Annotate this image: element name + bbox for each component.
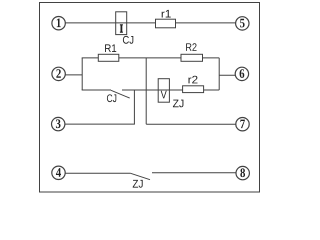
terminal 7 bbox=[236, 118, 249, 131]
resistor r1 bbox=[156, 19, 176, 28]
terminal 3 bbox=[52, 117, 65, 130]
terminal 8 bbox=[236, 166, 249, 179]
wire crossing vertical to terminal 7 bbox=[145, 58, 147, 124]
terminal 6 bbox=[235, 67, 248, 80]
label CJ (contact) bbox=[107, 94, 116, 102]
wire terminal1 to coil I bbox=[65, 22, 155, 24]
wire junction to terminal 7 bbox=[146, 123, 236, 125]
wire mid rail right bbox=[204, 89, 220, 91]
terminal 1 bbox=[52, 17, 65, 30]
resistor R2 bbox=[181, 54, 203, 61]
wire r1 to terminal 5 bbox=[176, 22, 236, 24]
wire terminal 4 to contact ZJ bbox=[65, 172, 130, 174]
coil I (relay CJ current coil) bbox=[116, 12, 127, 35]
coil V (relay ZJ voltage coil) bbox=[158, 79, 169, 103]
wire terminal 3 to junction bbox=[65, 123, 135, 125]
resistor r2 bbox=[183, 86, 204, 93]
wire left rail bbox=[81, 58, 83, 90]
wire right rail to terminal 6 bbox=[219, 74, 235, 76]
terminal 5 bbox=[236, 17, 249, 30]
wire mid rail center bbox=[122, 89, 183, 91]
label R1 bbox=[105, 44, 116, 52]
wire terminal2 to left rail bbox=[65, 74, 82, 76]
junction down to terminal 3 bbox=[133, 90, 135, 124]
terminal 4 bbox=[52, 166, 65, 179]
label R2 bbox=[186, 43, 196, 51]
wire top rail left bbox=[82, 57, 99, 59]
label r1 bbox=[162, 10, 171, 18]
label r2 bbox=[188, 76, 197, 84]
label ZJ (contact) bbox=[133, 180, 143, 188]
resistor R1 bbox=[98, 54, 119, 61]
contact CJ blade bbox=[111, 90, 130, 98]
wire mid rail left bbox=[82, 89, 111, 91]
wire contact ZJ to terminal 8 bbox=[152, 172, 236, 174]
wire top rail right bbox=[203, 57, 220, 59]
label ZJ (coil) bbox=[173, 100, 183, 108]
label CJ (coil) bbox=[123, 36, 133, 44]
enclosure box bbox=[40, 3, 260, 193]
terminal 2 bbox=[52, 67, 65, 80]
contact ZJ blade bbox=[131, 173, 150, 179]
wire right rail bbox=[218, 58, 220, 90]
wire top rail middle bbox=[119, 57, 181, 59]
